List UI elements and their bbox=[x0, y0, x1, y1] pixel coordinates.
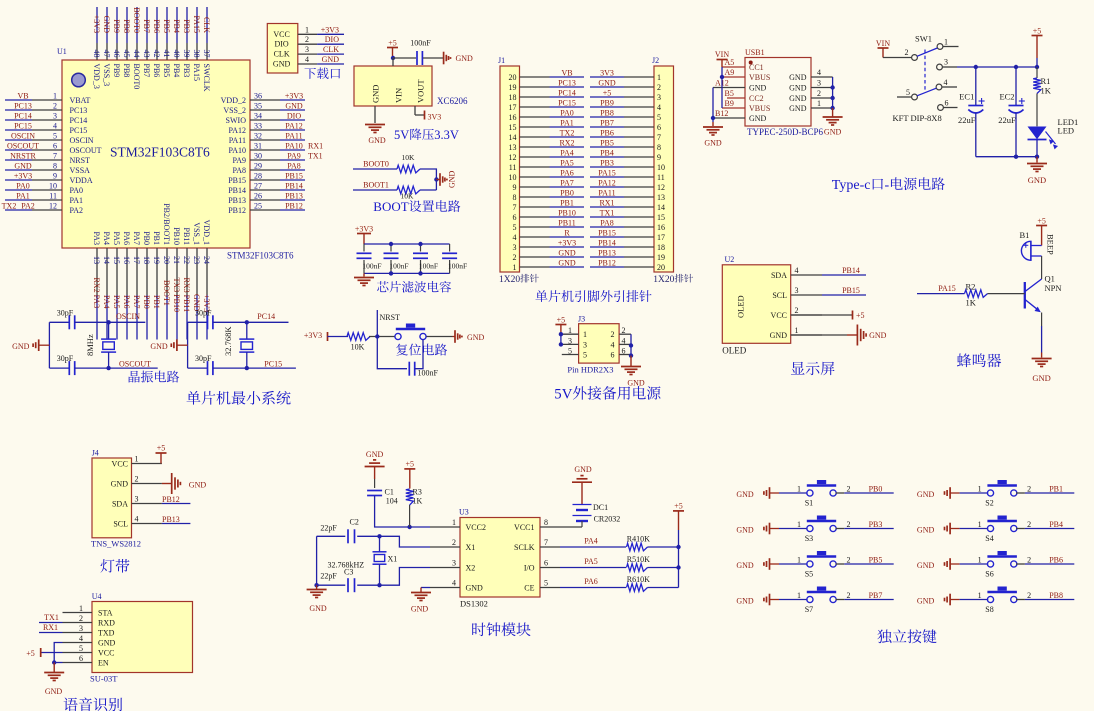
title BOOT设置电路 bbox=[373, 199, 460, 214]
U1 pin 35 VSS_2 bbox=[223, 102, 280, 116]
capacitor 100nF bbox=[410, 39, 431, 66]
J1 pin 13 bbox=[520, 146, 550, 148]
J3 pin 3 bbox=[562, 336, 579, 345]
J2 pin 14 bbox=[624, 206, 654, 208]
svg-text:28: 28 bbox=[254, 172, 262, 181]
U1 pin 12 PA2 bbox=[32, 202, 83, 216]
svg-text:1: 1 bbox=[452, 518, 456, 527]
svg-text:SWIO: SWIO bbox=[226, 116, 247, 125]
title 复位电路 bbox=[396, 344, 447, 356]
title 灯带 bbox=[101, 559, 130, 573]
wire net PB14 bbox=[590, 239, 624, 248]
svg-text:A9: A9 bbox=[725, 68, 735, 77]
J2 pin 12 bbox=[624, 186, 654, 188]
svg-text:VSS_2: VSS_2 bbox=[223, 106, 246, 115]
svg-text:30pF: 30pF bbox=[57, 354, 74, 363]
svg-text:GND: GND bbox=[917, 561, 935, 570]
J4 pin 3 SDA bbox=[112, 495, 162, 509]
svg-text:5: 5 bbox=[568, 347, 572, 356]
J3 pin 2 bbox=[619, 326, 631, 335]
node bbox=[377, 583, 381, 587]
power +3V3 bbox=[304, 331, 328, 341]
U4 pin 2 RXD bbox=[63, 614, 116, 628]
svg-text:12: 12 bbox=[657, 183, 665, 192]
node bbox=[559, 342, 563, 346]
svg-text:PB14: PB14 bbox=[228, 186, 246, 195]
ground GND bbox=[736, 558, 779, 570]
U1 pin 11 PA1 bbox=[32, 192, 83, 206]
label 1X20排针 bbox=[653, 274, 693, 285]
svg-text:5V: 5V bbox=[554, 387, 572, 403]
U3 pin 5 CE bbox=[524, 579, 560, 593]
battery DC1 CR2032 bbox=[573, 503, 621, 527]
svg-text:S8: S8 bbox=[985, 605, 993, 614]
svg-text:14: 14 bbox=[102, 256, 111, 264]
title 单片机最小系统 bbox=[187, 391, 291, 405]
U1 pin 5 OSCIN bbox=[32, 132, 94, 146]
svg-text:27: 27 bbox=[254, 182, 262, 191]
svg-text:19: 19 bbox=[152, 256, 161, 264]
svg-text:VCC: VCC bbox=[771, 311, 787, 320]
connector J1 1X20 body bbox=[498, 56, 520, 272]
svg-text:3.3V: 3.3V bbox=[434, 128, 459, 142]
wire net GND bbox=[102, 7, 111, 43]
U1 pin 18 PB0 bbox=[142, 231, 151, 295]
J3 pin 1 bbox=[562, 326, 579, 335]
J2 pin 17 bbox=[624, 236, 654, 238]
wire net PA15 bbox=[590, 169, 624, 178]
capacitor EC1 22uF bbox=[958, 67, 985, 157]
svg-text:PC13: PC13 bbox=[14, 102, 32, 111]
U1 pin 10 PA0 bbox=[32, 182, 83, 196]
svg-text:19: 19 bbox=[509, 83, 517, 92]
node bbox=[830, 96, 834, 100]
wire net BOOT1 bbox=[162, 280, 171, 340]
svg-text:100nF: 100nF bbox=[389, 262, 408, 271]
wire net TX1 bbox=[590, 209, 624, 218]
svg-text:PA12: PA12 bbox=[285, 122, 303, 131]
resistor R2 1K bbox=[965, 282, 988, 308]
svg-text:PB9: PB9 bbox=[600, 99, 614, 108]
svg-text:22pF: 22pF bbox=[320, 524, 337, 533]
J1 pin 1 bbox=[520, 266, 550, 268]
svg-text:1: 1 bbox=[795, 326, 799, 335]
svg-text:34: 34 bbox=[254, 112, 262, 121]
capacitor C2 22pF bbox=[320, 518, 358, 544]
resistor 10K bbox=[347, 333, 370, 352]
svg-text:GND: GND bbox=[917, 490, 935, 499]
U1 pin 42 PB6 bbox=[152, 43, 161, 77]
wire net PB4 bbox=[590, 149, 624, 158]
ground GND bbox=[572, 465, 592, 505]
svg-text:+5: +5 bbox=[157, 444, 166, 453]
J2 pin 9 bbox=[624, 156, 654, 158]
svg-text:100nF: 100nF bbox=[410, 39, 431, 48]
svg-text:30: 30 bbox=[254, 152, 262, 161]
svg-text:PB1: PB1 bbox=[152, 295, 161, 309]
svg-text:VCC: VCC bbox=[112, 460, 128, 469]
svg-text:S4: S4 bbox=[985, 534, 993, 543]
capacitor 100nF C1 bbox=[357, 244, 382, 273]
wire net PC15 bbox=[550, 99, 585, 108]
wire net DIO bbox=[317, 35, 344, 44]
svg-text:PC15: PC15 bbox=[558, 99, 576, 108]
wire net RX2 bbox=[550, 139, 585, 148]
svg-text:2: 2 bbox=[795, 306, 799, 315]
U4 pin 4 GND bbox=[63, 634, 116, 648]
wire net RX2 PA3 bbox=[92, 278, 101, 340]
svg-text:16: 16 bbox=[657, 223, 665, 232]
svg-text:30pF: 30pF bbox=[195, 354, 212, 363]
wire net PB15 bbox=[590, 229, 624, 238]
svg-text:PB14: PB14 bbox=[598, 239, 616, 248]
svg-text:PC14: PC14 bbox=[558, 89, 576, 98]
svg-text:EC2: EC2 bbox=[999, 92, 1014, 102]
svg-text:LED: LED bbox=[1058, 126, 1075, 136]
wire net PB11 bbox=[550, 219, 585, 228]
svg-text:PA6: PA6 bbox=[584, 577, 598, 586]
svg-text:PB7: PB7 bbox=[869, 591, 883, 600]
wire net +3V3 bbox=[5, 172, 32, 181]
J2 pin 15 bbox=[624, 216, 654, 218]
svg-text:PB1: PB1 bbox=[1049, 485, 1063, 494]
wire net OSCOUT bbox=[75, 360, 158, 369]
svg-text:PA15: PA15 bbox=[192, 16, 201, 34]
wire to gnd bbox=[436, 179, 440, 181]
wire net PC13 bbox=[5, 102, 32, 111]
svg-text:VDD_2: VDD_2 bbox=[221, 96, 246, 105]
svg-text:VOUT: VOUT bbox=[416, 79, 426, 103]
wire bbox=[54, 643, 62, 663]
wire net PA11 bbox=[590, 189, 624, 198]
wire bbox=[883, 57, 912, 59]
svg-text:7: 7 bbox=[544, 538, 548, 547]
svg-text:GND: GND bbox=[704, 139, 722, 148]
wire net PB12 bbox=[590, 259, 624, 268]
power +5 bbox=[673, 502, 684, 530]
svg-text:2: 2 bbox=[847, 485, 851, 494]
J2 pin 2 bbox=[624, 86, 654, 88]
resistor R3 1K bbox=[406, 488, 423, 528]
U3 pin 1 VCC2 bbox=[430, 518, 486, 532]
svg-text:6: 6 bbox=[622, 347, 626, 356]
svg-text:PB12: PB12 bbox=[228, 206, 246, 215]
svg-text:GND: GND bbox=[789, 104, 807, 113]
svg-text:R410K: R410K bbox=[627, 535, 650, 544]
resistor 10K (BOOT0) bbox=[397, 153, 420, 173]
svg-text:PA12: PA12 bbox=[598, 179, 616, 188]
USB1 pin A5 bbox=[722, 58, 745, 67]
svg-text:PA8: PA8 bbox=[287, 162, 301, 171]
svg-text:2: 2 bbox=[1027, 591, 1031, 600]
U1 pin 44 BOOT0 bbox=[132, 43, 141, 89]
svg-text:VCC: VCC bbox=[98, 649, 114, 658]
svg-text:39: 39 bbox=[182, 50, 191, 58]
wire bbox=[188, 321, 208, 323]
U1 pin 14 PA4 bbox=[102, 232, 111, 296]
J2 pin 6 bbox=[624, 126, 654, 128]
svg-text:PB4: PB4 bbox=[600, 149, 614, 158]
wire bbox=[317, 584, 346, 586]
U1 pin 33 PA12 bbox=[229, 122, 281, 136]
J2 pin 3 bbox=[624, 96, 654, 98]
svg-text:PB3: PB3 bbox=[182, 19, 191, 33]
svg-text:100nF: 100nF bbox=[418, 369, 439, 378]
power VIN bbox=[715, 50, 729, 67]
svg-text:33: 33 bbox=[254, 122, 262, 131]
U4 pin 6 EN bbox=[63, 654, 109, 668]
J1 pin 12 bbox=[520, 156, 550, 158]
svg-text:PB7: PB7 bbox=[142, 19, 151, 33]
svg-text:PA0: PA0 bbox=[560, 109, 574, 118]
svg-text:U4: U4 bbox=[92, 592, 102, 601]
svg-text:23: 23 bbox=[192, 256, 201, 264]
wire net PA8 bbox=[280, 162, 305, 171]
svg-text:C2: C2 bbox=[350, 518, 359, 527]
U2 pin 1 GND bbox=[770, 326, 822, 340]
U1 pin 27 PB14 bbox=[228, 182, 280, 196]
svg-text:SCL: SCL bbox=[113, 520, 128, 529]
svg-text:B12: B12 bbox=[715, 109, 728, 118]
U3 pin 2 X1 bbox=[430, 538, 475, 552]
svg-text:TX2: TX2 bbox=[560, 129, 575, 138]
svg-text:VSS_1: VSS_1 bbox=[192, 222, 201, 245]
svg-text:+5: +5 bbox=[406, 460, 415, 469]
svg-text:S7: S7 bbox=[805, 605, 813, 614]
wire VBUS bbox=[721, 67, 723, 108]
svg-text:32: 32 bbox=[254, 132, 262, 141]
svg-text:NRST: NRST bbox=[380, 313, 401, 322]
title Type-c口-电源电路 bbox=[832, 177, 945, 193]
svg-text:GND: GND bbox=[411, 605, 429, 614]
svg-text:CLK: CLK bbox=[323, 45, 339, 54]
svg-text:VIN: VIN bbox=[876, 39, 890, 48]
svg-text:2: 2 bbox=[611, 330, 615, 339]
wire bbox=[957, 66, 1037, 68]
svg-text:TNS_WS2812: TNS_WS2812 bbox=[91, 539, 141, 549]
svg-text:10: 10 bbox=[49, 182, 57, 191]
svg-text:U2: U2 bbox=[725, 255, 735, 264]
svg-text:SCLK: SCLK bbox=[514, 543, 535, 552]
svg-text:VIN: VIN bbox=[394, 88, 404, 103]
connector J4 body bbox=[91, 449, 141, 549]
svg-text:PB6: PB6 bbox=[152, 19, 161, 33]
svg-text:OSCOUT: OSCOUT bbox=[70, 146, 102, 155]
svg-text:PB3: PB3 bbox=[869, 520, 883, 529]
wire net +3V3 bbox=[92, 7, 101, 43]
wire net PB8 bbox=[122, 7, 131, 43]
svg-text:PA15: PA15 bbox=[598, 169, 616, 178]
svg-text:PB11: PB11 bbox=[182, 228, 191, 246]
wire net PC13 bbox=[550, 79, 585, 88]
svg-text:OSCIN: OSCIN bbox=[116, 312, 140, 321]
title 单片机引脚外引排针 bbox=[535, 290, 651, 302]
power +5 bbox=[156, 444, 167, 464]
U1 pin 23 VSS_1 bbox=[192, 222, 201, 295]
svg-text:R: R bbox=[564, 229, 570, 238]
wire to GND bbox=[423, 57, 444, 59]
svg-text:14: 14 bbox=[509, 133, 517, 142]
svg-text:BOOT0: BOOT0 bbox=[132, 7, 141, 33]
svg-text:PB8: PB8 bbox=[122, 19, 131, 33]
title 蜂鸣器 bbox=[957, 353, 1001, 367]
connector J2 1X20 body bbox=[652, 56, 674, 272]
svg-text:+3V3: +3V3 bbox=[304, 331, 322, 340]
svg-text:9: 9 bbox=[657, 153, 661, 162]
svg-text:GND: GND bbox=[366, 450, 384, 459]
J3 pin 5 bbox=[562, 347, 579, 356]
svg-text:RX2: RX2 bbox=[559, 139, 574, 148]
J2 pin 5 bbox=[624, 116, 654, 118]
svg-text:1: 1 bbox=[657, 73, 661, 82]
svg-text:7: 7 bbox=[657, 133, 661, 142]
svg-text:8: 8 bbox=[544, 518, 548, 527]
svg-text:PB2/BOOT1: PB2/BOOT1 bbox=[162, 203, 171, 245]
U3 pin 8 VCC1 bbox=[514, 518, 582, 532]
ground bbox=[354, 273, 374, 285]
svg-text:I/O: I/O bbox=[524, 564, 535, 573]
capacitor 30pF bottom bbox=[57, 354, 75, 375]
svg-text:PB0: PB0 bbox=[142, 231, 151, 245]
wire bbox=[960, 485, 989, 494]
J1 pin 19 bbox=[520, 86, 550, 88]
svg-text:PB8: PB8 bbox=[600, 109, 614, 118]
J1 pin 17 bbox=[520, 106, 550, 108]
title 5V外接备用电源 bbox=[554, 386, 660, 402]
svg-text:GND: GND bbox=[322, 55, 340, 64]
svg-text:XC6206: XC6206 bbox=[437, 96, 468, 106]
svg-text:STM32F103C8T6: STM32F103C8T6 bbox=[110, 145, 210, 160]
transistor Q1 NPN bbox=[1025, 274, 1062, 313]
svg-text:R510K: R510K bbox=[627, 555, 650, 564]
download port pin 3 CLK bbox=[274, 45, 318, 59]
IC U1 STM32F103C8T6 body bbox=[57, 47, 294, 261]
wire net PA6 bbox=[560, 577, 626, 588]
node VIN junction bbox=[391, 56, 395, 60]
wire bbox=[357, 568, 430, 586]
svg-text:GND: GND bbox=[102, 16, 111, 34]
capacitor 100nF bbox=[409, 362, 438, 378]
wire net BOOT0 bbox=[132, 7, 141, 43]
svg-text:+5: +5 bbox=[603, 89, 612, 98]
wire bbox=[960, 556, 989, 565]
node bbox=[245, 320, 249, 324]
U1 pin 1 VBAT bbox=[32, 92, 91, 106]
svg-text:VB: VB bbox=[561, 69, 572, 78]
svg-text:DIO: DIO bbox=[274, 40, 288, 49]
wire bottom rail bbox=[976, 156, 1037, 158]
svg-text:17: 17 bbox=[509, 103, 517, 112]
J2 pin 13 bbox=[624, 196, 654, 198]
wire net PB1 bbox=[550, 199, 585, 208]
wire net PB6 bbox=[590, 129, 624, 138]
svg-text:3V3: 3V3 bbox=[428, 113, 442, 122]
U1 pin 25 PB12 bbox=[228, 202, 280, 216]
svg-text:9: 9 bbox=[513, 183, 517, 192]
svg-text:10K: 10K bbox=[351, 343, 365, 352]
svg-text:PA11: PA11 bbox=[285, 132, 302, 141]
wire net PB15 bbox=[280, 172, 305, 181]
wire bbox=[779, 485, 808, 494]
node bbox=[245, 366, 249, 370]
svg-text:5: 5 bbox=[79, 644, 83, 653]
svg-text:1X20: 1X20 bbox=[653, 275, 674, 285]
svg-text:TXD: TXD bbox=[98, 629, 115, 638]
svg-text:VDD_3: VDD_3 bbox=[92, 64, 101, 89]
svg-text:PA6: PA6 bbox=[122, 295, 131, 309]
node bbox=[676, 565, 680, 569]
svg-text:4: 4 bbox=[817, 68, 821, 77]
svg-text:+3V3: +3V3 bbox=[355, 224, 373, 233]
svg-text:5: 5 bbox=[906, 88, 910, 97]
ground GND bbox=[917, 594, 960, 606]
U1 pin 45 PB8 bbox=[122, 43, 131, 77]
svg-text:C1: C1 bbox=[385, 488, 394, 497]
svg-text:1: 1 bbox=[797, 591, 801, 600]
ground GND bbox=[365, 450, 385, 479]
svg-text:R2: R2 bbox=[966, 282, 976, 292]
title 下载口 bbox=[305, 68, 341, 79]
J1 pin 15 bbox=[520, 126, 550, 128]
svg-text:PA4: PA4 bbox=[560, 149, 574, 158]
svg-text:PB13: PB13 bbox=[162, 515, 180, 524]
svg-text:GND: GND bbox=[574, 465, 592, 474]
wire net PB13 bbox=[590, 249, 624, 258]
svg-text:24: 24 bbox=[202, 256, 211, 264]
svg-text:46: 46 bbox=[112, 50, 121, 58]
svg-text:GND: GND bbox=[917, 526, 935, 535]
IC U4 SU-03T body bbox=[90, 592, 193, 684]
svg-text:6: 6 bbox=[544, 559, 548, 568]
label 1X20排针 bbox=[499, 274, 539, 285]
J3 pin 4 bbox=[619, 336, 631, 345]
svg-text:TX1: TX1 bbox=[308, 152, 323, 161]
svg-text:2: 2 bbox=[1027, 520, 1031, 529]
svg-text:104: 104 bbox=[386, 497, 398, 506]
U2 pin 4 SDA bbox=[771, 266, 822, 280]
svg-text:BOOT0: BOOT0 bbox=[363, 160, 389, 169]
wire net PB4 bbox=[172, 7, 181, 43]
svg-text:PB0: PB0 bbox=[142, 295, 151, 309]
wire net PB14 bbox=[822, 266, 866, 275]
svg-text:4: 4 bbox=[622, 336, 626, 345]
svg-text:3: 3 bbox=[53, 112, 57, 121]
svg-text:PB13: PB13 bbox=[598, 249, 616, 258]
U4 pin 3 TXD bbox=[63, 624, 115, 638]
svg-text:+5: +5 bbox=[674, 502, 683, 511]
svg-text:17: 17 bbox=[132, 256, 141, 264]
svg-text:+5: +5 bbox=[388, 38, 397, 47]
svg-text:44: 44 bbox=[132, 50, 141, 58]
USB1 pin 1 bbox=[811, 99, 833, 108]
svg-text:KFT DIP-8X8: KFT DIP-8X8 bbox=[893, 113, 942, 123]
svg-text:48: 48 bbox=[92, 50, 101, 58]
svg-text:GND: GND bbox=[150, 342, 168, 351]
svg-text:SW1: SW1 bbox=[915, 34, 932, 44]
svg-text:100nF: 100nF bbox=[419, 262, 438, 271]
connector download port body bbox=[267, 24, 298, 74]
USB1 pin 4 bbox=[811, 68, 833, 77]
svg-text:S6: S6 bbox=[985, 570, 993, 579]
wire net PA1 bbox=[5, 192, 32, 201]
svg-text:SWCLK: SWCLK bbox=[202, 64, 211, 92]
pushbutton reset bbox=[395, 324, 426, 340]
svg-text:1: 1 bbox=[53, 92, 57, 101]
capacitor 30pF top bbox=[195, 309, 213, 330]
J4 pin 4 SCL bbox=[113, 515, 162, 529]
svg-text:29: 29 bbox=[254, 162, 262, 171]
svg-text:PB15: PB15 bbox=[598, 229, 616, 238]
